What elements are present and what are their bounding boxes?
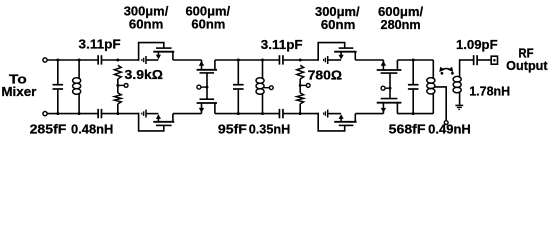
node: C4 top junction [237,59,240,62]
node: C7 top junction [412,59,415,62]
svg-text:3.9kΩ: 3.9kΩ [125,67,164,82]
capacitor C1 285fF (shunt) [57,60,59,84]
resistor R1 3.9k (upper) [114,65,121,79]
wire: M3/M4 (600um/60nm) common gate line [206,73,208,99]
svg-text:568fF: 568fF [389,121,426,136]
node: R2 bottom junction [116,112,119,115]
svg-text:Mixer: Mixer [1,84,36,99]
transistor M3/M4 (600um/60nm) top : gate bar [200,72,215,74]
wire: R chain mid stage3 [299,79,301,85]
transistor M3/M4 (600um/60nm) top : source lead w/ arrow [201,60,203,70]
port: bias stage3 [306,84,310,88]
transistor M5/M6 (300um/60nm) bottom : gate bar [339,124,354,126]
wire: bottom rail seg (C6 to M6 loop riser) [283,113,319,115]
resistor R4 780ohm (lower) [297,93,304,104]
wire: bottom rail seg1 [47,113,98,115]
wire: bias tap to R2 [117,85,119,93]
transistor M1/M2 (300um/60nm) bottom : drain lead [172,114,174,122]
wire: R chain mid [117,79,119,85]
svg-text:280nm: 280nm [381,17,421,32]
wire: top rail seg2 (to M1 loop riser) [101,59,139,61]
wire: M3/M4 (600um/60nm) bias stub [201,86,207,88]
transistor M3/M4 (600um/60nm) bottom : source lead w/ arrow [201,103,203,114]
node: T1 polarity dot (primary) [441,72,444,75]
svg-text:3.11pF: 3.11pF [261,37,303,52]
capacitor C8 1.09pF (series output) [473,55,475,65]
node: L1 top junction [78,59,81,62]
node: C7 bottom junction [412,112,415,115]
capacitor C3 3.11pF (series, bottom rail) [97,109,99,118]
wire: M6 drain to M8 source [355,113,383,115]
transistor M3/M4 (600um/60nm) bottom : gate bar [200,98,215,100]
resistor R3 780ohm (upper) [297,65,304,79]
transistor M1/M2 (300um/60nm) bottom : channel bar [153,121,174,123]
capacitor C6 3.11pF (series, bottom rail) [278,109,280,118]
wire: M7/M8 (600um/280nm) bias stub [385,87,390,89]
transistor M5/M6 (300um/60nm) top : channel bar [334,51,356,53]
inductor T1 primary 0.49nH [427,60,435,114]
wire: M7/M8 (600um/280nm) common gate line [389,73,391,99]
wire: secondary top to C8 [460,59,474,61]
inductor L2 0.35nH (shunt) [256,60,264,114]
wire: M7 drain to transformer primary [397,59,433,61]
transistor M5/M6 (300um/60nm) top : gate loop [318,43,345,61]
port: bias stage1 [124,84,128,88]
transistor M7/M8 (600um/280nm) top : source lead w/ arrow [382,60,384,70]
svg-text:285fF: 285fF [30,121,67,136]
svg-text:0.35nH: 0.35nH [249,121,291,136]
transistor M7/M8 (600um/280nm) bottom : gate bar [381,98,398,100]
port: To Mixer (bottom terminal) [43,112,47,116]
wire: bias stub stage1 [118,84,124,86]
capacitor C5 3.11pF (series, top rail) [278,55,280,64]
transistor M5/M6 (300um/60nm) bottom : gate loop [318,113,345,131]
transistor M5/M6 (300um/60nm) top : drain lead [354,52,356,60]
node: T1 polarity dot (secondary) [451,72,454,75]
transistor M5/M6 (300um/60nm) top : source lead w/ arrow [340,52,342,56]
transistor M3/M4 (600um/60nm) bottom : drain lead [214,103,216,114]
svg-text:0.49nH: 0.49nH [428,121,471,136]
svg-text:60nm: 60nm [321,17,356,32]
port: L2 bias tap [269,86,273,90]
transistor M7/M8 (600um/280nm) bottom : drain lead [396,103,398,114]
wire: M4 drain to C4/L2 section [215,113,280,115]
ground (sideways) at M1/M2 (300um/60nm) top source [145,56,147,64]
node: R1 top junction [116,59,119,62]
transistor M7/M8 (600um/280nm) top : channel bar [377,69,402,71]
node: bias tap stage1 [116,84,119,87]
svg-text:1.78nH: 1.78nH [469,84,510,99]
wire: M2 drain to M4 source [173,113,202,115]
wire: M3 drain to C4/L2 section [215,59,280,61]
capacitor C4 95fF (shunt) [237,60,239,84]
svg-text:1.09pF: 1.09pF [456,37,498,52]
transistor M1/M2 (300um/60nm) top : gate bar [156,47,172,49]
port: M7/M8 (600um/280nm) gate bias [381,86,385,90]
transistor M1/M2 (300um/60nm) bottom : source lead w/ arrow [157,118,159,122]
node: RF output port inner dot [493,59,496,62]
wire: bias tap to R4 [299,85,301,93]
transistor M1/M2 (300um/60nm) top : channel bar [153,51,174,53]
transistor M7/M8 (600um/280nm) top : drain lead [396,60,398,70]
ground (sideways) at M1/M2 (300um/60nm) bottom source [145,110,147,118]
transistor M7/M8 (600um/280nm) bottom : channel bar [377,102,402,104]
transistor M5/M6 (300um/60nm) bottom : drain lead [354,114,356,122]
wire: M1 drain to M3 source [173,59,202,61]
transistor M5/M6 (300um/60nm) top : gate bar [339,47,354,49]
transistor M1/M2 (300um/60nm) bottom : gate bar [156,124,172,126]
node: bias tap stage3 [299,84,302,87]
ground (sideways) at M5/M6 (300um/60nm) top source [327,56,329,64]
wire: top rail seg1 [47,59,98,61]
wire: C8 to RF output port [477,59,491,61]
node: C1 top junction [56,59,59,62]
node: L2 top junction [261,59,264,62]
transistor M5/M6 (300um/60nm) bottom : channel bar [334,121,356,123]
wire: R4 to bottom rail [299,104,301,114]
svg-text:0.48nH: 0.48nH [71,121,113,136]
node: L1 bottom junction [78,112,81,115]
wire: bias stub stage3 [300,84,306,86]
port: To Mixer (top terminal) [43,58,47,62]
node: R4 bottom junction [299,112,302,115]
transistor M3/M4 (600um/60nm) top : drain lead [214,60,216,70]
transistor M7/M8 (600um/280nm) bottom : source lead w/ arrow [382,103,384,114]
node: L2 bottom junction [261,112,264,115]
wire: T1 primary center tap to bias port [434,87,446,121]
port: RF Output (square terminal) [491,56,497,64]
transistor M7/M8 (600um/280nm) top : gate bar [381,72,398,74]
svg-text:Output: Output [506,58,548,73]
capacitor C2 3.11pF (series, top rail) [97,55,99,64]
transformer coupling arrows [441,69,451,71]
transistor M3/M4 (600um/60nm) bottom : channel bar [197,102,217,104]
svg-text:60nm: 60nm [191,17,225,32]
node: C4 bottom junction [237,112,240,115]
svg-text:3.11pF: 3.11pF [79,36,121,51]
transistor M1/M2 (300um/60nm) top : drain lead [172,52,174,60]
transistor M1/M2 (300um/60nm) bottom : gate loop [139,113,164,131]
transistor M3/M4 (600um/60nm) top : channel bar [197,69,217,71]
svg-text:95fF: 95fF [218,121,247,136]
port: M3/M4 (600um/60nm) gate bias [197,85,201,89]
svg-text:780Ω: 780Ω [308,67,343,82]
node: M3/M4 (600um/60nm) gate bias junction [206,86,209,89]
wire: R2 to bottom rail [117,104,119,114]
transistor M1/M2 (300um/60nm) top : source lead w/ arrow [157,52,159,56]
wire: L2 bias tap stub [264,87,269,89]
wire: top rail seg (C5 to M5 loop riser) [283,59,319,61]
inductor L1 0.48nH (shunt) [73,60,81,114]
resistor R2 3.9k (lower) [114,93,121,104]
wire: M5 drain to M7 source [355,59,383,61]
ground under T1 secondary [455,104,463,106]
node: C1 bottom junction [56,112,59,115]
port: T1 center tap bias [444,121,448,125]
node: R3 top junction [299,59,302,62]
wire: M8 drain to transformer primary [397,113,433,115]
inductor T1 secondary 1.78nH [453,59,461,105]
node: M7/M8 (600um/280nm) gate bias junction [389,87,392,90]
wire: bottom rail seg2 (to M2 loop riser) [101,113,139,115]
svg-text:60nm: 60nm [129,17,163,32]
capacitor C7 568fF (shunt) [412,60,414,84]
transistor M1/M2 (300um/60nm) top : gate loop [139,43,164,61]
ground (sideways) at M5/M6 (300um/60nm) bottom source [327,110,329,118]
transistor M5/M6 (300um/60nm) bottom : source lead w/ arrow [340,118,342,122]
